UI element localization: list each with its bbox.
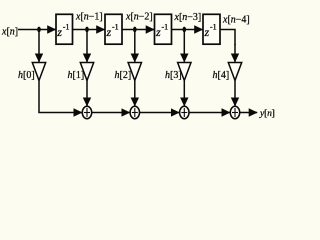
wire adder2 to adder3 xyxy=(140,112,180,114)
wire h[0] output to adder 1 xyxy=(39,81,82,113)
adder 2 xyxy=(130,106,139,118)
wire delay2 to delay3 xyxy=(122,29,154,31)
svg-text:z: z xyxy=(106,25,112,39)
wire delay3 to delay4 xyxy=(172,29,203,31)
junction node 3 xyxy=(133,27,137,33)
svg-text:h[0]: h[0] xyxy=(18,70,35,81)
wire delay4 output corner xyxy=(220,30,235,46)
svg-text:h[4]: h[4] xyxy=(213,70,230,81)
adder 4 xyxy=(230,106,239,118)
junction node 4 xyxy=(183,27,187,33)
wire tap 3 down to multiplier xyxy=(134,30,136,62)
svg-text:x[n−4]: x[n−4] xyxy=(222,15,250,26)
multiplier triangle h[0] xyxy=(32,63,45,81)
wire adder1 to adder2 xyxy=(92,112,130,114)
delay block z^-1 #3 xyxy=(155,14,172,44)
junction node 2 xyxy=(85,27,89,33)
wire tap 4 down to multiplier xyxy=(183,30,185,62)
multiplier triangle h[4] xyxy=(228,63,241,81)
wire h[2] output down to adder 2 xyxy=(134,81,136,106)
svg-text:z: z xyxy=(204,25,210,39)
junction node 1 xyxy=(37,27,41,33)
wire output to y[n] xyxy=(240,112,257,114)
delay block z^-1 #2 xyxy=(105,14,122,44)
wire tap 1 down to multiplier xyxy=(38,30,40,62)
wire h[1] output down to adder 1 xyxy=(86,81,88,106)
svg-text:-1: -1 xyxy=(210,23,217,32)
svg-text:x[n−1]: x[n−1] xyxy=(75,12,103,23)
adder 1 xyxy=(82,106,91,118)
svg-text:x[n−2]: x[n−2] xyxy=(125,12,153,23)
delay block z^-1 #1 xyxy=(56,14,73,44)
wire adder3 to adder4 xyxy=(189,112,230,114)
svg-text:x[n−3]: x[n−3] xyxy=(174,12,202,23)
svg-text:z: z xyxy=(56,25,62,39)
wire input to delay box 1 xyxy=(18,29,56,31)
svg-text:h[1]: h[1] xyxy=(68,70,85,81)
svg-text:y[n]: y[n] xyxy=(259,108,275,119)
svg-text:-1: -1 xyxy=(112,23,119,32)
svg-text:z: z xyxy=(155,25,161,39)
svg-text:x[n]: x[n] xyxy=(1,27,18,38)
wire tap 5 down to multiplier xyxy=(234,44,236,62)
multiplier triangle h[2] xyxy=(128,63,141,81)
wire delay1 to delay2 xyxy=(73,29,105,31)
svg-text:h[3]: h[3] xyxy=(165,70,182,81)
multiplier triangle h[3] xyxy=(178,63,191,81)
multiplier triangle h[1] xyxy=(80,63,93,81)
delay block z^-1 #4 xyxy=(203,14,220,44)
svg-text:-1: -1 xyxy=(162,23,169,32)
adder 3 xyxy=(180,106,189,118)
svg-text:h[2]: h[2] xyxy=(115,70,132,81)
wire h[4] output down to adder 4 xyxy=(234,81,236,106)
svg-text:-1: -1 xyxy=(63,23,70,32)
wire h[3] output down to adder 3 xyxy=(183,81,185,106)
wire tap 2 down to multiplier xyxy=(86,30,88,62)
